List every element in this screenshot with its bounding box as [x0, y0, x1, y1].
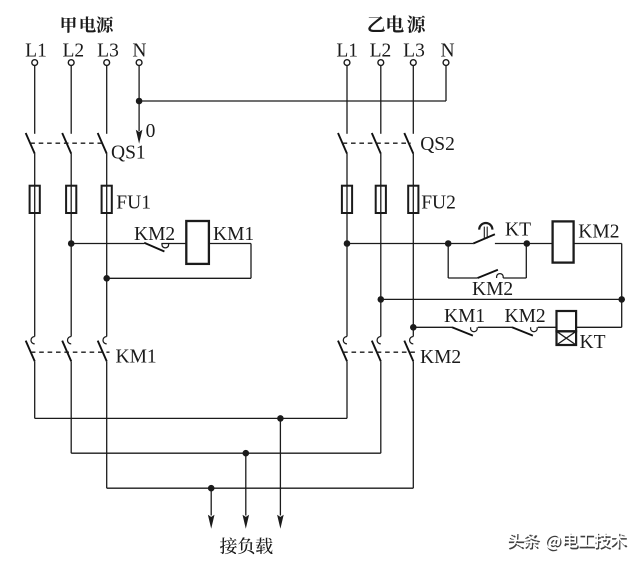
svg-text:N: N — [441, 41, 455, 62]
disconnector QS1 pole 3 lever — [98, 133, 107, 154]
wire QS2 pole 2 to fuse FU2 — [380, 154, 382, 186]
svg-text:KM2: KM2 — [505, 306, 546, 327]
contactor KM1 main contact pole 1 — [26, 336, 35, 361]
svg-text:FU1: FU1 — [116, 193, 151, 214]
terminal circle L2-A — [68, 60, 74, 66]
svg-text:L3: L3 — [403, 41, 425, 62]
svg-text:KM1: KM1 — [116, 347, 157, 368]
terminal circle N-A — [136, 60, 142, 66]
contact KM2 normally-closed (interlock) — [144, 243, 186, 252]
wire QS1 pole 1 to fuse FU1 — [34, 154, 36, 186]
disconnector QS1 pole 2 lever — [62, 133, 71, 154]
wire QS2 pole 1 to fuse FU2 — [346, 154, 348, 186]
arrow: load feeder phase 1 — [277, 418, 284, 528]
contactor coil KM2 — [553, 221, 574, 262]
svg-text:KM2: KM2 — [420, 347, 461, 368]
disconnector QS1 pole 2 upper wire — [70, 66, 72, 134]
fuse FU2-3 — [408, 186, 418, 213]
KM2 main linkage (dashed) — [343, 351, 416, 353]
wire QS1 pole 3 to fuse FU1 — [106, 154, 108, 186]
wire QS2 pole 3 to fuse FU2 — [412, 154, 414, 186]
node: N junction — [136, 98, 143, 105]
disconnector QS1 pole 1 lever — [26, 133, 35, 154]
wire: branch bottom left segment — [448, 277, 477, 279]
wire KM1 coil to L3-A return — [107, 244, 251, 279]
arrow: neutral 0 reference — [136, 101, 143, 144]
contactor coil KM1 — [186, 221, 209, 264]
wire L3-A fuse to KM1 contact — [106, 213, 108, 337]
svg-text:L1: L1 — [25, 41, 47, 62]
fuse FU1-1 — [30, 186, 40, 213]
node: KT contact right branch point — [524, 240, 531, 247]
contact KM1 normally-open — [452, 327, 512, 335]
wire QS1 pole 2 to fuse FU1 — [70, 154, 72, 186]
disconnector QS2 pole 3 upper wire — [412, 66, 414, 134]
wire L2-B contact down to bus 2 — [380, 361, 382, 453]
wire L3-B fuse to KM2 contact — [412, 213, 414, 337]
bus wire phase 1 (load) — [35, 417, 347, 419]
svg-text:0: 0 — [146, 121, 156, 142]
svg-text:L2: L2 — [370, 41, 392, 62]
wire L1-B contact down to bus 1 — [346, 361, 348, 418]
wire: neutral bus N — [139, 100, 446, 102]
wire L1-A contact down to bus 1 — [34, 361, 36, 418]
node on L2-A (control tap) — [68, 240, 75, 247]
node on L2-B (return tap) — [378, 296, 385, 303]
node on L1-B (control tap) — [344, 240, 351, 247]
svg-text:KM2: KM2 — [472, 279, 513, 300]
svg-text:FU2: FU2 — [421, 193, 456, 214]
contactor KM1 main contact pole 2 — [62, 336, 71, 361]
contactor KM2 main contact pole 1 — [338, 336, 347, 361]
disconnector QS2 pole 3 lever — [404, 133, 413, 154]
contact KM2 normally-open (self-holding) — [478, 270, 527, 278]
svg-text:QS1: QS1 — [111, 142, 146, 163]
bus wire phase 2 (load) — [71, 452, 381, 454]
node on L3-B (KT branch tap) — [410, 324, 417, 331]
contactor KM2 main contact pole 2 — [372, 336, 381, 361]
disconnector QS2 pole 1 lever — [338, 133, 347, 154]
contact KT time-delay normally-open — [473, 223, 552, 244]
wire L1-B tap to KT contact — [347, 243, 473, 245]
arrow: load feeder phase 3 — [208, 488, 215, 529]
node: load tap phase 1 — [277, 415, 284, 422]
svg-text:KM2: KM2 — [578, 222, 619, 243]
QS1 linkage (dashed) — [30, 142, 104, 144]
wire: L3-B tap to KM1 NO contact — [413, 326, 452, 328]
contactor KM1 main contact pole 3 — [98, 336, 107, 361]
disconnector QS1 pole 1 upper wire — [34, 66, 36, 134]
node: right vertical at L2-B return bus — [618, 296, 625, 303]
node on L3-A (coil return) — [103, 275, 110, 282]
node: load tap phase 2 — [243, 450, 250, 457]
title: source B (乙电源) — [368, 15, 425, 33]
wire L3-B contact down to bus 3 — [412, 361, 414, 488]
disconnector QS2 pole 1 upper wire — [346, 66, 348, 134]
label: to load (接负载) — [220, 537, 273, 554]
contactor KM2 main contact pole 3 — [404, 336, 413, 361]
bus wire phase 3 (load) — [107, 487, 414, 489]
svg-text:L2: L2 — [62, 41, 84, 62]
time relay coil KT — [557, 311, 577, 345]
svg-text:L3: L3 — [97, 41, 119, 62]
terminal circle L3-B — [410, 60, 416, 66]
wire L1-B fuse to KM2 contact — [346, 213, 348, 337]
wire L2-B fuse to KM2 contact — [380, 213, 382, 337]
wire: KM2 self-hold branch down-left — [447, 244, 449, 279]
watermark 头条@电工技术 — [508, 532, 628, 551]
fuse FU2-2 — [376, 186, 386, 213]
node: load tap phase 3 — [208, 485, 215, 492]
wire: N-B drop — [445, 66, 447, 101]
svg-text:N: N — [132, 41, 146, 62]
wire L3-A contact down to bus 3 — [106, 361, 108, 488]
wire: branch up to node — [525, 244, 527, 279]
svg-text:L1: L1 — [336, 41, 358, 62]
KM1 main linkage (dashed) — [31, 351, 110, 353]
wire: L2-B return bus — [381, 298, 622, 300]
terminal circle L1-A — [32, 60, 38, 66]
wire L1-A fuse to KM1 contact — [34, 213, 36, 337]
wire KT coil to right vertical — [576, 326, 622, 328]
QS2 linkage (dashed) — [343, 142, 411, 144]
svg-text:QS2: QS2 — [420, 134, 455, 155]
wire KM2 coil right to vertical bus — [574, 244, 622, 328]
svg-text:KT: KT — [580, 332, 606, 353]
disconnector QS2 pole 2 lever — [372, 133, 381, 154]
svg-text:KM1: KM1 — [213, 224, 254, 245]
disconnector QS2 pole 2 upper wire — [380, 66, 382, 134]
fuse FU1-3 — [102, 186, 112, 213]
fuse FU1-2 — [66, 186, 76, 213]
fuse FU2-1 — [342, 186, 352, 213]
terminal circle N-B — [443, 60, 449, 66]
title: source A (甲电源) — [62, 16, 113, 33]
terminal circle L2-B — [378, 60, 384, 66]
arrow: load feeder phase 2 — [243, 453, 250, 529]
svg-text:KM1: KM1 — [444, 306, 485, 327]
wire L2-A fuse to KM1 contact — [70, 213, 72, 337]
svg-text:KT: KT — [505, 220, 531, 241]
wire L2-A contact down to bus 2 — [70, 361, 72, 453]
terminal circle L1-B — [344, 60, 350, 66]
node: KT contact left branch point — [445, 240, 452, 247]
contact KM2 normally-open (in KT branch) — [512, 327, 557, 335]
terminal circle L3-A — [104, 60, 110, 66]
wire: N-A drop to junction — [138, 66, 140, 101]
svg-text:KM2: KM2 — [134, 224, 175, 245]
wire L2-A tap to KM2 NC contact — [71, 243, 144, 245]
disconnector QS1 pole 3 upper wire — [106, 66, 108, 134]
